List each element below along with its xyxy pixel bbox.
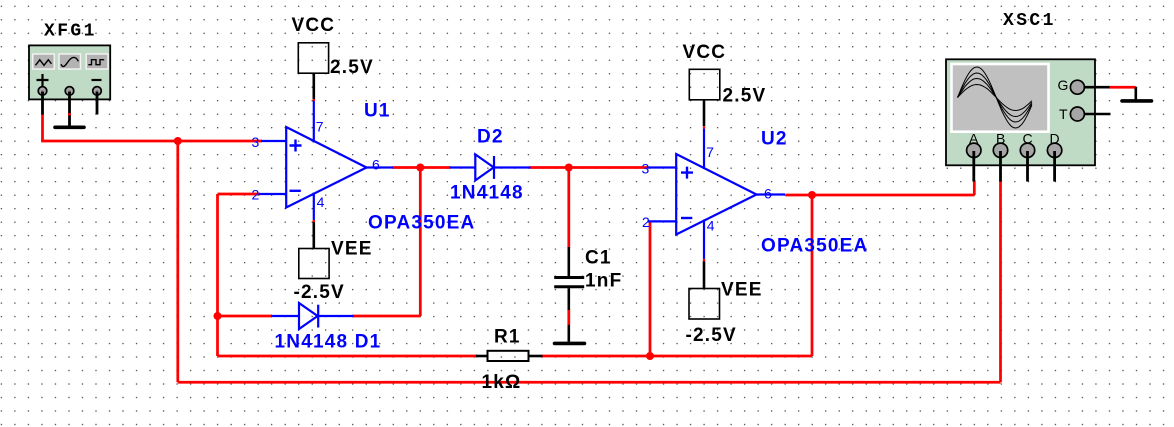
XSC1 G wire black (1084, 86, 1110, 89)
ground at scope stem (1135, 87, 1138, 99)
svg-text:VCC: VCC (683, 42, 727, 63)
oscilloscope XSC1 body (946, 59, 1095, 165)
svg-text:A: A (969, 131, 979, 147)
diode D1 cathode bar (317, 305, 319, 328)
XSC1 screen (952, 64, 1049, 132)
svg-text:R1: R1 (494, 327, 521, 348)
wire: scope G red segment (1109, 86, 1136, 89)
op-amp U2 minus input mark (681, 217, 692, 219)
XSC1 G terminal (1070, 80, 1084, 94)
svg-text:C1: C1 (585, 248, 612, 269)
XFG1 minus mark (92, 79, 102, 81)
ground below C1 stem (567, 325, 570, 342)
wire: U2 pin7 red blip (703, 126, 705, 129)
resistor R1 left lead (476, 355, 488, 358)
wire: D1 cathode red segment (353, 315, 421, 318)
XFG1 minus terminal stub (96, 92, 99, 115)
svg-text:6: 6 (764, 186, 772, 202)
svg-text:T: T (1059, 106, 1068, 122)
XSC1 B terminal (993, 143, 1007, 157)
junction node: U2 output (808, 191, 816, 199)
svg-text:7: 7 (706, 144, 714, 160)
op-amp U2 pin4 lead (703, 220, 705, 259)
wire: U2 feedback vertical (811, 195, 814, 356)
wire: U2 pin2 vertical (649, 221, 652, 356)
svg-text:3: 3 (252, 134, 260, 150)
diode D1 triangle (299, 303, 318, 329)
wire: U2 output to scope A (786, 194, 975, 197)
XFG1 common terminal stub (68, 92, 71, 126)
XFG1 triangle wave button (33, 54, 55, 69)
wire: C1 top vertical red (567, 168, 570, 248)
XSC1 D stub (1053, 151, 1056, 182)
svg-text:D2: D2 (477, 127, 504, 148)
ground below C1 bar (555, 342, 585, 346)
wire: XFG1 to U1 pin3 horizontal (41, 140, 262, 143)
op-amp U2 plus input mark (681, 167, 693, 179)
wire: scope B vertical (999, 181, 1002, 383)
op-amp U1 pin6 lead (366, 166, 393, 168)
wire: feedback rail R1 right (542, 355, 813, 358)
XSC1 C stub (1026, 151, 1029, 182)
svg-text:4: 4 (317, 194, 325, 210)
capacitor C1 plates (554, 278, 584, 287)
VEE supply square U2 (689, 289, 720, 320)
XFG1 plus terminal stub (41, 92, 44, 115)
diode D1 anode lead (271, 315, 300, 317)
svg-text:XSC1: XSC1 (1003, 11, 1056, 31)
XSC1 T wire black (1084, 113, 1111, 116)
op-amp U1 pin7 lead (313, 101, 315, 143)
svg-text:2.5V: 2.5V (330, 57, 374, 78)
svg-text:VEE: VEE (721, 280, 763, 301)
op-amp U2 pin7 lead (703, 129, 705, 169)
XSC1 T terminal (1070, 107, 1084, 121)
diode D2 cathode bar (493, 156, 495, 179)
junction node: U1 output (416, 164, 424, 172)
VCC supply square U2 (689, 69, 720, 100)
svg-text:VEE: VEE (331, 239, 373, 260)
XSC1 A stub (972, 151, 975, 182)
resistor R1 body (488, 351, 529, 361)
svg-text:U1: U1 (364, 101, 391, 122)
XSC1 A terminal (967, 143, 981, 157)
wire: XFG1 common red blip (68, 113, 71, 116)
svg-text:D: D (1050, 131, 1060, 147)
capacitor C1 top lead (567, 247, 570, 277)
junction node: feedback rail / U2 pin2 (646, 352, 654, 360)
junction node: C1 tap (565, 164, 573, 172)
XFG1 common terminal (65, 87, 74, 96)
svg-text:2: 2 (642, 214, 650, 230)
VCC U2 wire (703, 100, 706, 126)
svg-text:2: 2 (252, 187, 260, 203)
XSC1 C terminal (1020, 143, 1034, 157)
op-amp U2 triangle (676, 154, 756, 235)
wire: XFG1 plus output down (41, 114, 44, 142)
svg-text:1N4148 D1: 1N4148 D1 (275, 332, 382, 353)
wire: U1 pin4 red blip (313, 220, 315, 223)
VEE supply square U1 (299, 249, 329, 279)
XFG1 minus terminal (93, 87, 102, 96)
XFG1 square wave button (86, 54, 108, 69)
svg-text:U2: U2 (761, 129, 788, 150)
diode D2 cathode lead (494, 166, 531, 168)
wire: left vertical down to bottom rail (176, 141, 179, 382)
svg-text:1N4148: 1N4148 (450, 183, 524, 204)
wire: U1 feedback vertical (216, 194, 219, 356)
op-amp U1 plus input mark (290, 140, 302, 152)
resistor R1 right lead (528, 355, 543, 358)
VCC supply square U1 (298, 43, 328, 73)
svg-text:-2.5V: -2.5V (294, 282, 345, 303)
svg-text:B: B (996, 131, 1005, 147)
svg-text:OPA350EA: OPA350EA (368, 213, 475, 234)
XSC1 D terminal (1047, 143, 1061, 157)
svg-text:2.5V: 2.5V (723, 86, 767, 107)
svg-text:G: G (1058, 77, 1069, 93)
VEE U2 wire (703, 261, 706, 288)
XFG1 plus terminal (38, 87, 47, 96)
svg-text:XFG1: XFG1 (44, 22, 97, 42)
svg-text:6: 6 (372, 157, 380, 173)
op-amp U1 pin2 lead (259, 193, 288, 195)
wire: U1 pin2 horizontal (218, 193, 261, 196)
diode D2 anode lead (450, 166, 476, 168)
VCC U1 wire (312, 73, 315, 99)
XFG1 sine wave button (59, 54, 81, 69)
op-amp U1 triangle (286, 127, 366, 208)
diode D2 triangle (475, 154, 493, 180)
op-amp U2 pin2 lead (648, 220, 678, 222)
wire: bottom rail to scope B (178, 381, 1001, 384)
svg-text:4: 4 (707, 218, 715, 234)
wire: U1 pin7 red blip (313, 99, 315, 102)
op-amp U1 minus input mark (290, 190, 301, 192)
junction node: D1 tap (214, 312, 222, 320)
svg-text:OPA350EA: OPA350EA (761, 236, 868, 257)
capacitor C1 bottom lead (567, 288, 570, 310)
op-amp U1 pin4 lead (313, 193, 315, 220)
XSC1 screen waveform (958, 67, 1032, 128)
svg-text:VCC: VCC (292, 15, 336, 36)
svg-text:7: 7 (316, 119, 324, 135)
junction node: XFG to bottom rail (174, 137, 182, 145)
wire: feedback rail R1 left (218, 355, 478, 358)
wire: D1 anode red segment (218, 315, 273, 318)
wire: scope A vertical (973, 181, 976, 196)
function generator XFG1 body (29, 45, 110, 99)
ground below XFG1 bar (55, 126, 84, 130)
svg-text:C: C (1023, 131, 1033, 147)
svg-text:1nF: 1nF (585, 271, 622, 292)
diode D1 cathode lead (318, 315, 354, 317)
op-amp U2 pin3 lead (648, 166, 678, 168)
XSC1 B stub (999, 151, 1002, 182)
wire: D1 to U1 output vertical (419, 168, 422, 317)
svg-text:3: 3 (642, 161, 650, 177)
VEE U1 wire (312, 222, 315, 248)
wire: C1 ground stub red (567, 310, 570, 326)
op-amp U2 pin6 lead (757, 193, 786, 195)
ground at scope bar (1122, 99, 1152, 103)
svg-text:1kΩ: 1kΩ (482, 372, 522, 393)
wire: U1 output red segment (393, 166, 451, 169)
svg-text:-2.5V: -2.5V (686, 325, 737, 346)
wire: D2 cathode to U2 pin3 (530, 166, 649, 169)
op-amp U1 pin3 lead (261, 140, 287, 142)
wire: U2 pin4 red blip (703, 259, 705, 262)
XFG1 plus mark (37, 74, 49, 86)
